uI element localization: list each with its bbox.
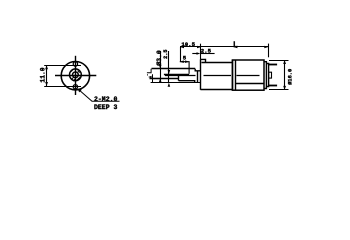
side view: gearbox rear face / motor joint — [232, 60, 234, 90]
dimension 11.0 extension line top — [44, 65, 81, 67]
front view: shaft hatching — [71, 70, 80, 81]
arrowheads L — [233, 46, 268, 49]
side view: centerline shaft segment — [165, 75, 196, 77]
dimension 5 line — [180, 62, 189, 74]
dimension line shared 10.5 / L — [180, 46, 268, 48]
side view: shaft step riser — [178, 74, 180, 81]
svg-text:DEEP 3: DEEP 3 — [94, 104, 118, 111]
svg-text:2-M2.0: 2-M2.0 — [94, 96, 118, 103]
side view: motor end cap — [264, 62, 266, 89]
svg-text:Ø16.0: Ø16.0 — [287, 69, 294, 85]
side view: centerline gearbox segment — [204, 75, 232, 77]
side view: motor can flange line — [235, 60, 237, 90]
side view: centerline motor segment — [237, 75, 260, 77]
svg-text:L: L — [233, 41, 238, 50]
side view: shaft bottom line front — [150, 78, 179, 80]
dimension extension at gearbox face — [200, 44, 202, 60]
side view: boss bottom extension line — [151, 82, 201, 84]
side view: gearbox faceplate lip — [201, 59, 206, 62]
side view: motor can seam line — [235, 83, 264, 85]
side view: motor can outline — [232, 60, 264, 90]
side view: gearbox top edge — [202, 62, 233, 64]
side view: terminal bottom — [269, 85, 278, 87]
dimension 11.0 extension line bottom — [44, 86, 81, 88]
side view: boss front face — [197, 71, 199, 83]
side view: shaft top line — [152, 68, 196, 70]
leader line to screw holes — [78, 89, 120, 101]
dimension d3.0 line — [160, 51, 162, 83]
dimension 2.5 left arrow — [192, 53, 197, 55]
arrowheads d3.0 — [159, 65, 162, 83]
svg-text:11.0: 11.0 — [40, 67, 47, 82]
side view: gearbox bottom edge — [201, 89, 233, 91]
front view: vertical centerline — [75, 56, 77, 95]
arrowheads d16.0 — [283, 60, 286, 90]
svg-text:5: 5 — [183, 55, 187, 62]
top screw hole M2 — [73, 62, 77, 66]
front view: gearbox outline circle — [61, 61, 89, 89]
dimension d16.0 extension bottom — [269, 89, 289, 91]
front view: bearing boss circle — [70, 69, 82, 81]
side view: shaft step to boss top — [195, 69, 200, 71]
side view: end cap step — [266, 64, 268, 87]
dimension 2.5 flat line — [168, 51, 170, 83]
svg-text:2.5: 2.5 — [201, 48, 212, 55]
dimension d16.0 line — [284, 60, 286, 90]
front view: horizontal centerline — [55, 75, 96, 77]
arrowheads 10.5 — [180, 46, 201, 49]
side view: rear bearing bump — [269, 72, 272, 78]
arrowheads 2.5 flat — [168, 70, 171, 87]
side view: gearbox front face — [200, 59, 202, 89]
bottom screw hole M2 — [73, 85, 77, 89]
dimension 11.0 arrowheads — [45, 65, 48, 86]
dimension d3.0 outside arrow — [148, 76, 152, 79]
svg-text:10.5: 10.5 — [181, 41, 195, 48]
dimension extension at motor rear — [268, 44, 270, 58]
side view: shaft bottom line rear — [179, 81, 195, 83]
side view: terminal top — [269, 64, 278, 66]
svg-text:2.5: 2.5 — [163, 50, 169, 59]
front view: shaft circle — [73, 72, 79, 78]
dimension 2.5 underline — [200, 53, 215, 55]
dimension extension at shaft step — [180, 47, 182, 62]
side view: shaft flat line — [164, 74, 189, 76]
dimension 2.5 step mark — [147, 69, 151, 73]
dimension d16.0 extension top — [269, 60, 289, 62]
dimension 11.0 dimension line — [46, 65, 48, 86]
arrowheads 5 — [180, 60, 189, 63]
dimension d3.0 arrow tail — [152, 78, 161, 80]
svg-text:Ø3.0: Ø3.0 — [155, 50, 163, 66]
